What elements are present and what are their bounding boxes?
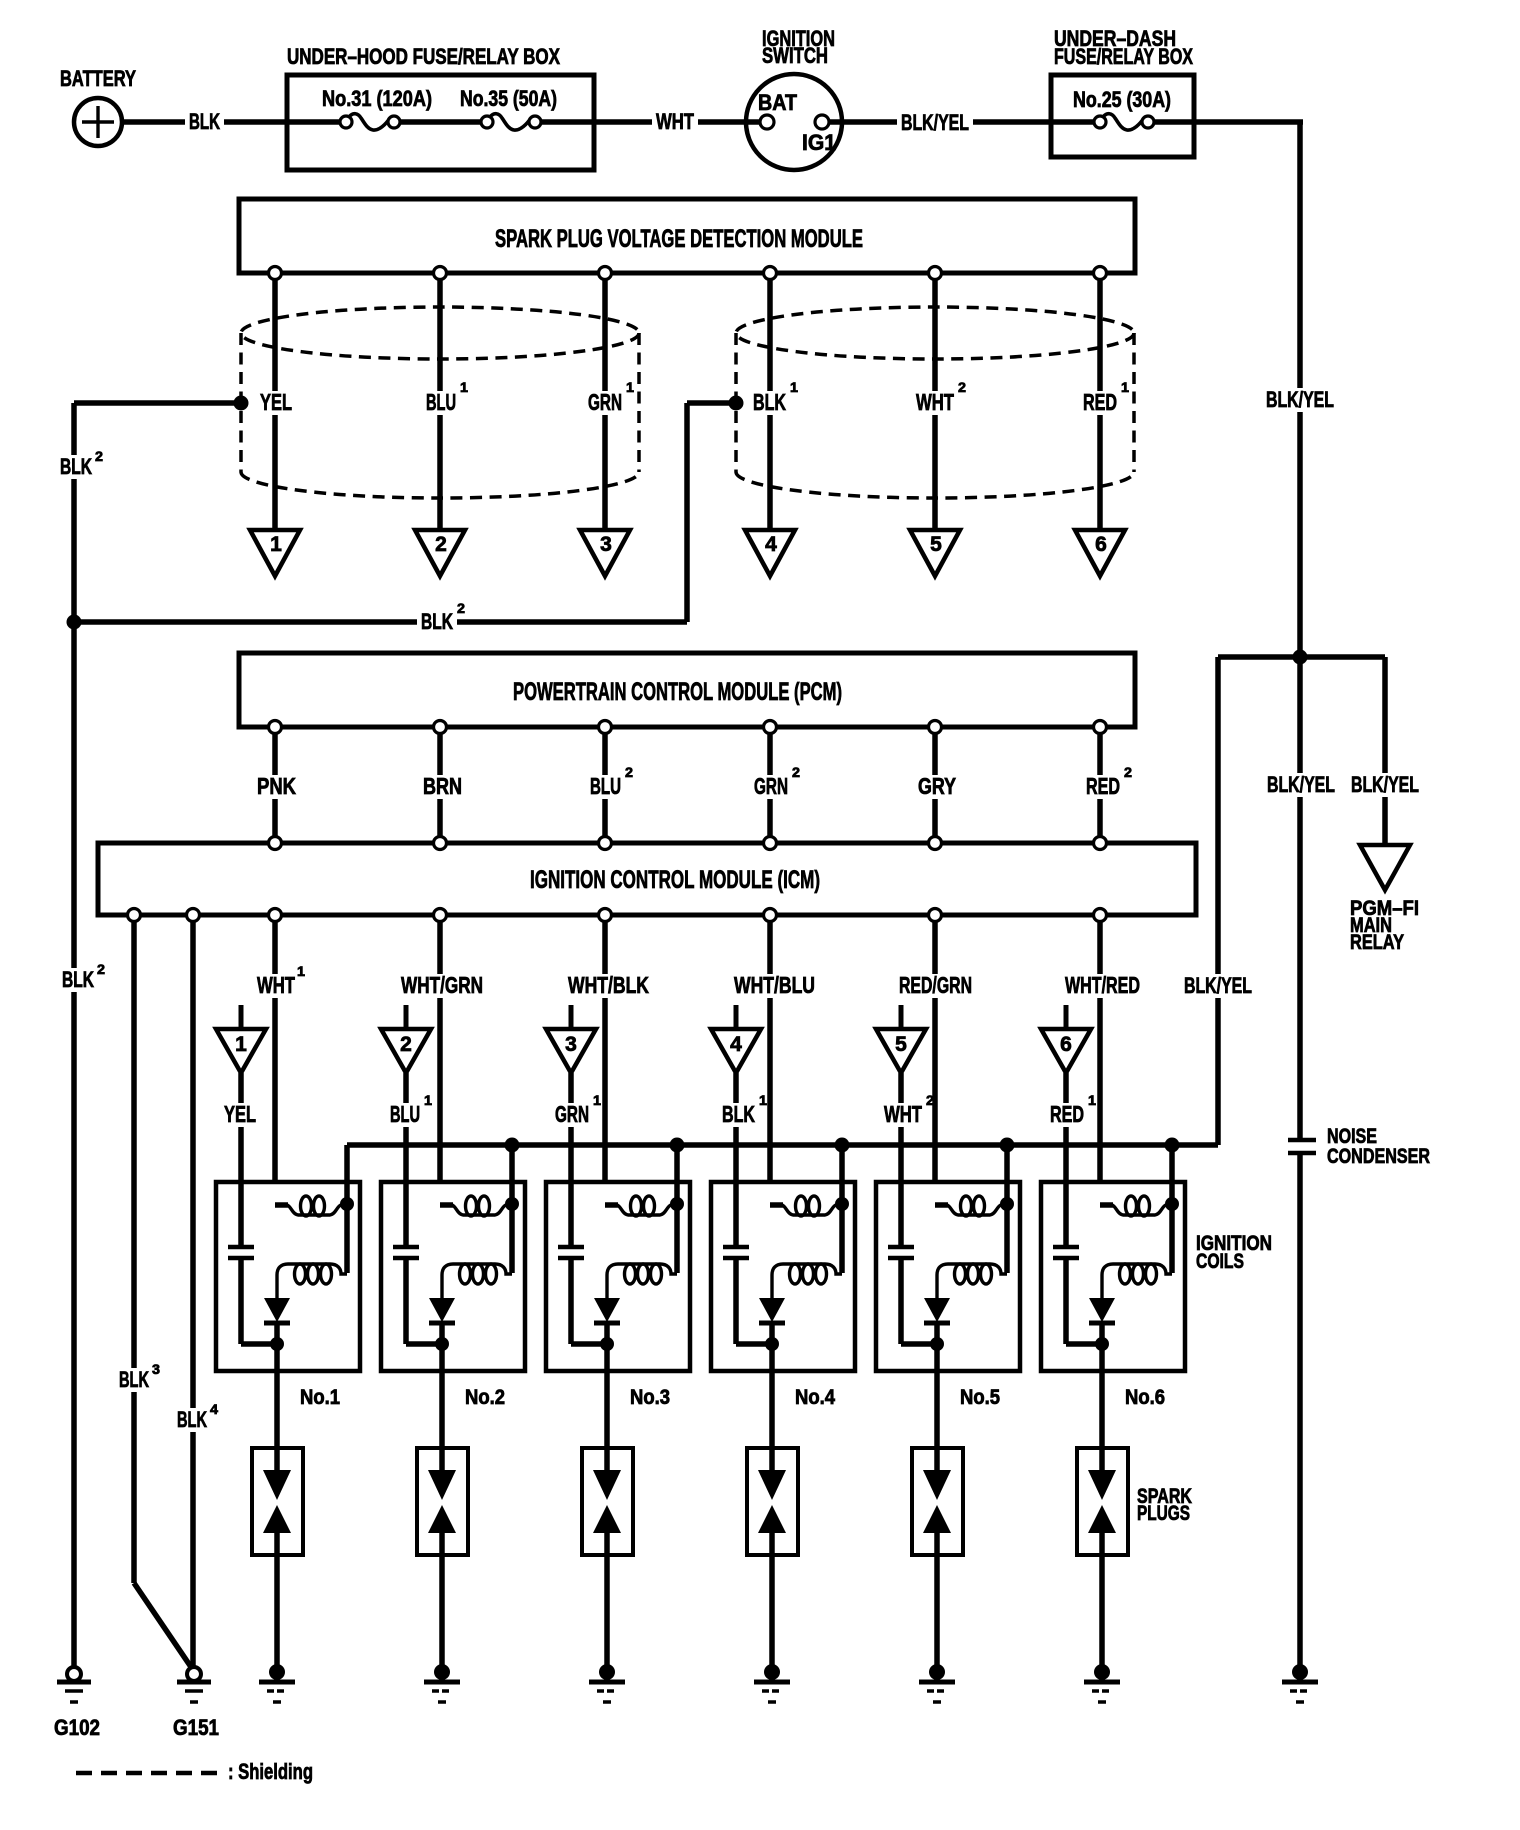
spark plug 5 with ground xyxy=(912,1371,963,1702)
spark plugs label xyxy=(1137,1485,1192,1525)
ignition coil No.2: capacitor, primary winding, secondary winding, diode xyxy=(381,1145,525,1371)
svg-text:COILS: COILS xyxy=(1196,1250,1244,1273)
svg-text:No.4: No.4 xyxy=(795,1386,835,1409)
svg-text:SPARK PLUG VOLTAGE DETECTION M: SPARK PLUG VOLTAGE DETECTION MODULE xyxy=(495,225,863,253)
ignition coil No.6: capacitor, primary winding, secondary winding, diode xyxy=(1041,1145,1185,1371)
BLK3 wire ICM to G151 xyxy=(115,915,191,1667)
fuse No.25 (30A) xyxy=(1051,87,1194,130)
svg-text:No.3: No.3 xyxy=(630,1386,670,1409)
powertrain control module (PCM) xyxy=(239,653,1135,727)
svg-text:No.25 (30A): No.25 (30A) xyxy=(1073,87,1171,112)
svg-text:PLUGS: PLUGS xyxy=(1137,1502,1190,1525)
BLK/YEL bus to coil primaries xyxy=(347,1138,1218,1153)
svg-text:1: 1 xyxy=(759,1092,767,1108)
svg-text:IG1: IG1 xyxy=(802,130,836,155)
connector triangle 1 (lower) with wire to coil xyxy=(216,1005,266,1182)
svg-text:2: 2 xyxy=(958,379,966,395)
spark plug 3 with ground xyxy=(582,1371,633,1702)
svg-text:1: 1 xyxy=(235,1033,247,1056)
svg-text:1: 1 xyxy=(790,379,798,395)
wires PCM to ICM xyxy=(275,727,1100,843)
noise condenser xyxy=(1288,1125,1430,1168)
spark plug 2 with ground xyxy=(417,1371,468,1702)
svg-text:BLK/YEL: BLK/YEL xyxy=(1351,772,1419,797)
shielding (right) xyxy=(736,307,1134,498)
connector triangle 2 (lower) with wire to coil xyxy=(381,1005,431,1182)
connector triangle 2 (upper) xyxy=(415,530,465,576)
wires module to connectors 1-6 xyxy=(275,273,1100,530)
svg-text:RED/GRN: RED/GRN xyxy=(899,972,972,998)
svg-text:WHT/RED: WHT/RED xyxy=(1065,972,1140,998)
svg-text:2: 2 xyxy=(95,448,103,464)
shielding (left, cylinders drawn dashed) xyxy=(241,307,639,498)
svg-text:No.2: No.2 xyxy=(465,1386,505,1409)
wire labels inside shields xyxy=(256,379,1129,415)
svg-text:YEL: YEL xyxy=(224,1101,256,1127)
svg-text:1: 1 xyxy=(270,533,282,556)
wire battery to under-hood fuse/relay box (BLK) xyxy=(122,109,287,134)
svg-text:6: 6 xyxy=(1095,533,1107,556)
svg-text:No.35 (50A): No.35 (50A) xyxy=(460,86,557,111)
svg-text:POWERTRAIN CONTROL MODULE (PCM: POWERTRAIN CONTROL MODULE (PCM) xyxy=(513,678,842,706)
connector triangle 3 (upper) xyxy=(580,530,630,576)
svg-text:G102: G102 xyxy=(54,1715,100,1740)
coil input wire labels xyxy=(220,1092,1096,1127)
svg-text:3: 3 xyxy=(600,533,612,556)
spark plug 1 with ground xyxy=(252,1371,303,1702)
svg-text:BLK: BLK xyxy=(189,109,220,134)
svg-text:CONDENSER: CONDENSER xyxy=(1327,1145,1430,1168)
svg-text:3: 3 xyxy=(152,1361,160,1377)
module pin circles xyxy=(269,267,1107,280)
svg-text:BLU: BLU xyxy=(390,1101,420,1127)
svg-text:WHT/GRN: WHT/GRN xyxy=(401,972,483,998)
svg-text:WHT/BLK: WHT/BLK xyxy=(568,972,649,998)
svg-text:1: 1 xyxy=(1121,379,1129,395)
svg-text:: Shielding: : Shielding xyxy=(228,1759,313,1784)
wire through under-hood box xyxy=(287,119,594,125)
wire under-hood box to ignition switch (WHT) xyxy=(594,109,748,134)
svg-text:RED: RED xyxy=(1083,389,1117,415)
shielding legend xyxy=(76,1759,313,1784)
ignition control module (ICM) xyxy=(98,843,1196,915)
svg-text:6: 6 xyxy=(1060,1033,1072,1056)
svg-text:IGNITION CONTROL MODULE (ICM): IGNITION CONTROL MODULE (ICM) xyxy=(530,866,820,894)
svg-text:BLK: BLK xyxy=(119,1367,149,1392)
svg-text:YEL: YEL xyxy=(260,389,292,415)
svg-text:BLK/YEL: BLK/YEL xyxy=(1184,973,1252,998)
ignition coil No.5: capacitor, primary winding, secondary winding, diode xyxy=(876,1145,1020,1371)
under-dash fuse/relay box xyxy=(1051,26,1194,157)
connector triangle 3 (lower) with wire to coil xyxy=(546,1005,596,1182)
BLK/YEL rail label (x=1300, upper) xyxy=(1262,387,1338,412)
left vertical BLK2 wire down to G102 xyxy=(56,403,105,1667)
svg-text:BLK: BLK xyxy=(177,1407,207,1432)
svg-text:1: 1 xyxy=(297,963,305,979)
svg-text:GRN: GRN xyxy=(588,389,622,415)
svg-text:BLK: BLK xyxy=(421,609,453,634)
svg-text:BLK/YEL: BLK/YEL xyxy=(1266,387,1334,412)
svg-text:GRN: GRN xyxy=(754,773,788,799)
svg-text:4: 4 xyxy=(730,1033,742,1056)
svg-text:BRN: BRN xyxy=(423,773,462,799)
junction of BLK/YEL rails xyxy=(1218,650,1385,665)
horizontal BLK2 wire xyxy=(67,600,688,634)
svg-text:BAT: BAT xyxy=(758,90,797,115)
spark plug 4 with ground xyxy=(747,1371,798,1702)
BLK/YEL rail to ground xyxy=(1282,1153,1318,1702)
svg-text:No.31 (120A): No.31 (120A) xyxy=(322,86,432,111)
svg-text:GRY: GRY xyxy=(918,773,956,799)
svg-text:BLK/YEL: BLK/YEL xyxy=(901,110,969,135)
svg-text:BLK/YEL: BLK/YEL xyxy=(1267,772,1335,797)
ICM top pin circles xyxy=(269,837,1107,850)
ignition coil No.1: capacitor, primary winding, secondary winding, diode xyxy=(216,1145,360,1371)
svg-text:5: 5 xyxy=(895,1033,907,1056)
connector triangle 6 (upper) xyxy=(1075,530,1125,576)
svg-text:3: 3 xyxy=(565,1033,577,1056)
spark plug 6 with ground xyxy=(1077,1371,1128,1702)
svg-text:SWITCH: SWITCH xyxy=(762,43,828,68)
svg-text:GRN: GRN xyxy=(555,1101,589,1127)
svg-text:RELAY: RELAY xyxy=(1350,931,1404,954)
connector triangle 1 (upper) xyxy=(250,530,300,576)
svg-text:2: 2 xyxy=(625,764,633,780)
svg-text:2: 2 xyxy=(926,1092,934,1108)
svg-text:1: 1 xyxy=(626,379,634,395)
svg-text:1: 1 xyxy=(460,379,468,395)
svg-text:BLU: BLU xyxy=(426,389,456,415)
wire ignition switch IG1 to under-dash box (BLK/YEL) xyxy=(842,110,1051,135)
svg-text:BLK: BLK xyxy=(62,967,94,992)
svg-text:2: 2 xyxy=(97,961,105,977)
svg-text:2: 2 xyxy=(435,533,447,556)
svg-text:FUSE/RELAY BOX: FUSE/RELAY BOX xyxy=(1054,44,1193,69)
BLK/YEL branch to ICM-coil bus xyxy=(1218,657,1339,1145)
BLK/YEL branch to PGM-FI main relay xyxy=(1347,657,1423,954)
wire under-dash box to right BLK/YEL rail xyxy=(1194,122,1303,1140)
svg-text:1: 1 xyxy=(424,1092,432,1108)
ignition coil No.4: capacitor, primary winding, secondary winding, diode xyxy=(711,1145,855,1371)
svg-text:UNDER–HOOD FUSE/RELAY BOX: UNDER–HOOD FUSE/RELAY BOX xyxy=(287,44,560,69)
svg-text:2: 2 xyxy=(1124,764,1132,780)
svg-text:WHT: WHT xyxy=(916,389,954,415)
BLK/YEL label lower-left rail xyxy=(1180,973,1256,998)
svg-text:No.6: No.6 xyxy=(1125,1386,1165,1409)
BLK4 wire ICM to G151 xyxy=(173,915,218,1667)
svg-text:2: 2 xyxy=(792,764,800,780)
spark plug voltage detection module xyxy=(239,199,1135,273)
wire BLK2 to right shield xyxy=(687,396,744,623)
ICM bottom pin circles xyxy=(128,909,1107,922)
connector triangle 5 (upper) xyxy=(910,530,960,576)
ICM output wire labels xyxy=(253,963,1144,998)
svg-text:RED: RED xyxy=(1086,773,1120,799)
wires ICM to ignition coils xyxy=(275,915,1100,1204)
svg-text:4: 4 xyxy=(765,533,777,556)
svg-text:BLK: BLK xyxy=(60,454,92,479)
ground G151 xyxy=(173,1667,219,1740)
svg-text:PNK: PNK xyxy=(257,773,296,799)
svg-text:5: 5 xyxy=(930,533,942,556)
PCM pin circles xyxy=(269,721,1107,734)
PCM-ICM wire labels xyxy=(253,764,1132,799)
wire BLK2 ground to left shield xyxy=(74,396,249,411)
connector triangle 6 (lower) with wire to coil xyxy=(1041,1005,1091,1182)
battery xyxy=(60,66,136,146)
coil number labels xyxy=(300,1386,1165,1409)
svg-text:1: 1 xyxy=(1088,1092,1096,1108)
svg-text:WHT: WHT xyxy=(884,1101,922,1127)
connector triangle 4 (upper) xyxy=(745,530,795,576)
svg-text:4: 4 xyxy=(210,1401,218,1417)
svg-text:BLU: BLU xyxy=(590,773,621,799)
connector triangle 5 (lower) with wire to coil xyxy=(876,1005,926,1182)
ground G102 xyxy=(54,1667,100,1740)
svg-text:WHT/BLU: WHT/BLU xyxy=(734,972,815,998)
ignition coil No.3: capacitor, primary winding, secondary winding, diode xyxy=(546,1145,690,1371)
svg-text:No.1: No.1 xyxy=(300,1386,340,1409)
fuse No.31 (120A) xyxy=(322,86,432,130)
svg-text:WHT: WHT xyxy=(656,109,694,134)
svg-text:WHT: WHT xyxy=(257,972,295,998)
svg-text:BATTERY: BATTERY xyxy=(60,66,136,91)
svg-text:BLK: BLK xyxy=(753,389,786,415)
svg-text:RED: RED xyxy=(1050,1101,1084,1127)
svg-text:G151: G151 xyxy=(173,1715,219,1740)
svg-text:1: 1 xyxy=(593,1092,601,1108)
ignition coils label xyxy=(1196,1232,1272,1273)
svg-text:2: 2 xyxy=(400,1033,412,1056)
svg-text:BLK: BLK xyxy=(722,1101,755,1127)
fuse No.35 (50A) xyxy=(460,86,557,130)
under-hood fuse/relay box xyxy=(287,44,594,170)
ignition switch xyxy=(746,26,842,170)
connector triangle 4 (lower) with wire to coil xyxy=(711,1005,761,1182)
svg-text:2: 2 xyxy=(457,600,465,616)
svg-text:No.5: No.5 xyxy=(960,1386,1000,1409)
